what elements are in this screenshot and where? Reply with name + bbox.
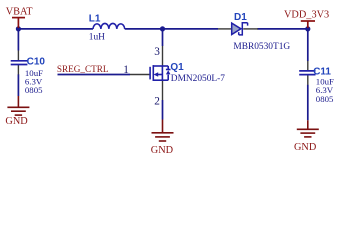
svg-text:0805: 0805: [25, 85, 43, 95]
svg-text:3: 3: [154, 46, 160, 58]
svg-text:MBR0530T1G: MBR0530T1G: [233, 42, 290, 52]
svg-text:Q1: Q1: [170, 62, 184, 73]
svg-text:DMN2050L-7: DMN2050L-7: [171, 74, 225, 84]
svg-text:C10: C10: [27, 56, 46, 67]
svg-text:GND: GND: [294, 142, 317, 153]
svg-text:VDD_3V3: VDD_3V3: [284, 10, 329, 21]
svg-text:GND: GND: [151, 145, 174, 156]
svg-text:L1: L1: [89, 13, 101, 24]
svg-text:GND: GND: [5, 116, 28, 127]
svg-text:0805: 0805: [316, 94, 334, 104]
svg-text:1uH: 1uH: [89, 33, 105, 43]
svg-text:SREG_CTRL: SREG_CTRL: [57, 64, 109, 74]
svg-text:2: 2: [154, 96, 160, 108]
svg-text:D1: D1: [234, 12, 247, 23]
svg-text:1: 1: [123, 64, 129, 76]
svg-text:VBAT: VBAT: [6, 7, 34, 18]
